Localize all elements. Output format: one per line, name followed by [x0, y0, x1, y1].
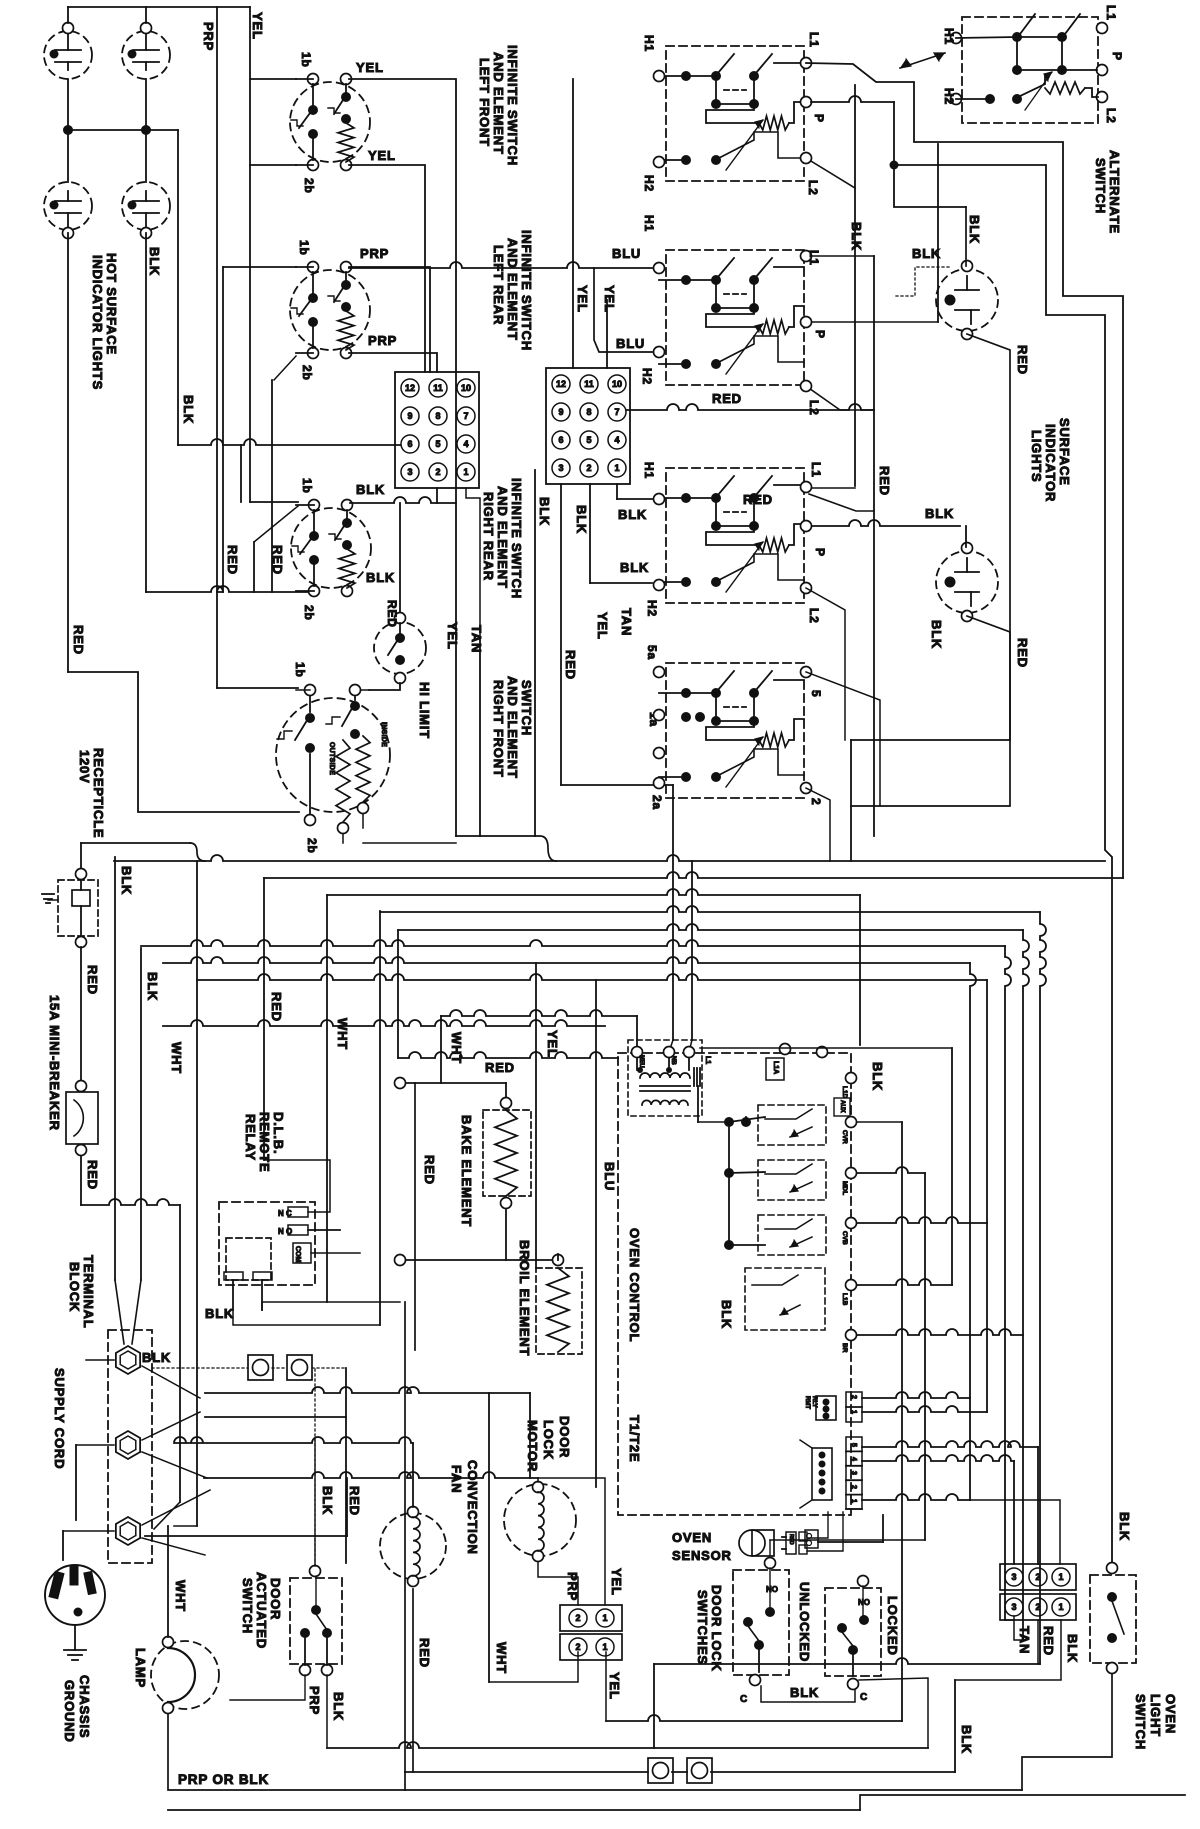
svg-text:RED: RED [85, 965, 100, 995]
svg-text:2: 2 [809, 798, 823, 805]
svg-text:2b: 2b [300, 365, 314, 381]
svg-text:SWITCHES: SWITCHES [695, 1590, 710, 1665]
svg-text:YEL: YEL [602, 285, 617, 313]
svg-text:PRP OR BLK: PRP OR BLK [178, 1772, 269, 1787]
svg-text:1: 1 [850, 1499, 857, 1503]
svg-text:D.L.B.: D.L.B. [271, 1112, 286, 1154]
svg-text:WHT: WHT [335, 1018, 350, 1050]
svg-text:L1B: L1B [841, 1293, 848, 1306]
svg-text:T1/T2E: T1/T2E [627, 1415, 642, 1462]
svg-text:1: 1 [614, 463, 619, 473]
svg-text:8: 8 [586, 407, 591, 417]
svg-text:L1D: L1D [841, 1086, 848, 1099]
svg-text:SUPPLY CORD: SUPPLY CORD [52, 1368, 67, 1469]
svg-text:MDL: MDL [841, 1181, 848, 1195]
svg-text:RED: RED [877, 466, 892, 496]
svg-text:DOOR: DOOR [268, 1578, 283, 1620]
svg-text:1: 1 [1058, 1602, 1063, 1612]
svg-text:5: 5 [586, 435, 591, 445]
svg-text:2a: 2a [650, 795, 664, 810]
svg-text:WHT: WHT [173, 1580, 188, 1612]
svg-text:BLK: BLK [870, 1062, 885, 1091]
svg-text:10: 10 [461, 383, 471, 393]
svg-text:INFINITE SWITCH: INFINITE SWITCH [505, 45, 520, 166]
svg-text:YEL: YEL [250, 12, 265, 40]
svg-text:OVEN CONTROL: OVEN CONTROL [627, 1228, 642, 1342]
svg-text:2: 2 [435, 467, 440, 477]
svg-text:4: 4 [614, 435, 619, 445]
svg-text:9: 9 [407, 411, 412, 421]
svg-text:DOOR: DOOR [557, 1416, 572, 1458]
svg-text:OUTSIDE: OUTSIDE [328, 742, 335, 775]
svg-text:1: 1 [602, 1613, 607, 1623]
svg-text:YEL: YEL [595, 612, 610, 640]
svg-text:N C: N C [278, 1209, 292, 1218]
svg-text:BLU: BLU [616, 336, 645, 351]
svg-text:AND ELEMENT: AND ELEMENT [505, 238, 520, 341]
svg-text:3: 3 [850, 1471, 857, 1475]
svg-text:5: 5 [435, 439, 440, 449]
svg-text:H2: H2 [640, 368, 654, 385]
svg-text:BLK: BLK [719, 1300, 734, 1329]
svg-text:YEL: YEL [609, 1568, 624, 1596]
svg-text:CVB: CVB [841, 1231, 848, 1245]
svg-text:2b: 2b [302, 178, 316, 194]
svg-text:CHASSIS: CHASSIS [77, 1675, 92, 1738]
svg-text:1: 1 [850, 1410, 857, 1414]
svg-text:GROUND: GROUND [62, 1680, 77, 1743]
svg-text:P: P [813, 548, 827, 557]
svg-text:TAN: TAN [619, 608, 634, 636]
svg-text:N O: N O [278, 1227, 292, 1236]
svg-text:AND ELEMENT: AND ELEMENT [505, 676, 520, 779]
svg-text:INFINITE SWITCH: INFINITE SWITCH [509, 478, 524, 599]
svg-text:LIGHTS: LIGHTS [1029, 430, 1044, 482]
svg-text:BAKE ELEMENT: BAKE ELEMENT [459, 1115, 474, 1227]
svg-text:12: 12 [556, 379, 566, 389]
svg-text:WHT: WHT [494, 1642, 509, 1674]
svg-text:BLU: BLU [612, 246, 641, 261]
svg-text:BLK: BLK [959, 1725, 974, 1754]
svg-text:2b: 2b [305, 838, 319, 854]
svg-text:L1: L1 [1104, 5, 1118, 21]
svg-text:OVEN: OVEN [1163, 1694, 1178, 1734]
svg-text:2: 2 [575, 1613, 580, 1623]
svg-text:L2: L2 [807, 400, 821, 416]
svg-text:BLK: BLK [356, 482, 385, 497]
svg-text:H1: H1 [642, 462, 656, 479]
svg-text:BLK: BLK [331, 1692, 346, 1721]
svg-text:120V: 120V [77, 750, 92, 784]
svg-text:5: 5 [809, 690, 823, 697]
svg-text:NO: NO [858, 1598, 870, 1607]
svg-text:INFINITE SWITCH: INFINITE SWITCH [519, 230, 534, 351]
svg-text:2: 2 [586, 463, 591, 473]
svg-text:RLY: RLY [811, 1396, 817, 1407]
svg-text:AUX: AUX [839, 1100, 845, 1113]
svg-text:BLK: BLK [929, 620, 944, 649]
svg-text:2: 2 [850, 1395, 857, 1399]
svg-text:FAN: FAN [449, 1465, 464, 1493]
svg-text:RIGHT FRONT: RIGHT FRONT [491, 680, 506, 778]
svg-text:RED: RED [347, 1486, 362, 1516]
svg-text:BLK: BLK [320, 1486, 335, 1515]
svg-text:LIGHT: LIGHT [1148, 1694, 1163, 1737]
svg-text:PRP: PRP [307, 1686, 322, 1715]
svg-text:5a: 5a [645, 645, 659, 660]
svg-text:MOTOR: MOTOR [525, 1420, 540, 1472]
svg-text:2b: 2b [302, 605, 316, 621]
svg-text:YEL: YEL [356, 60, 384, 75]
svg-text:SURFACE: SURFACE [1057, 418, 1072, 486]
svg-text:L2: L2 [806, 180, 820, 196]
svg-text:RED: RED [485, 1060, 515, 1075]
svg-text:H2: H2 [645, 600, 659, 617]
svg-text:BLK: BLK [537, 497, 552, 526]
svg-text:C: C [740, 1694, 747, 1705]
svg-text:BLK: BLK [620, 560, 649, 575]
svg-text:5: 5 [850, 1443, 857, 1447]
svg-text:RED: RED [1015, 638, 1030, 668]
svg-text:BLOCK: BLOCK [67, 1262, 82, 1312]
svg-text:RED: RED [269, 992, 284, 1022]
svg-text:ACTUATED: ACTUATED [254, 1572, 269, 1649]
svg-text:BLK: BLK [790, 1685, 819, 1700]
svg-text:RELAY: RELAY [243, 1114, 258, 1161]
svg-text:NO: NO [766, 1585, 778, 1594]
svg-text:RED: RED [385, 600, 399, 628]
svg-text:AND ELEMENT: AND ELEMENT [495, 486, 510, 589]
svg-text:L1: L1 [807, 250, 821, 266]
svg-text:INDICATOR LIGHTS: INDICATOR LIGHTS [90, 255, 105, 390]
svg-text:1b: 1b [293, 662, 307, 678]
svg-text:SENSOR: SENSOR [672, 1548, 732, 1563]
svg-text:15A MINI-BREAKER: 15A MINI-BREAKER [47, 995, 62, 1131]
svg-text:10: 10 [612, 379, 622, 389]
svg-text:1: 1 [1058, 1572, 1063, 1582]
svg-text:BLK: BLK [1065, 1634, 1080, 1663]
svg-text:LOCK: LOCK [541, 1420, 556, 1460]
svg-text:8: 8 [435, 411, 440, 421]
svg-text:RED: RED [1041, 1626, 1056, 1656]
svg-text:BLK: BLK [849, 222, 864, 251]
svg-text:SWITCH: SWITCH [1093, 158, 1108, 214]
svg-text:INDICATOR: INDICATOR [1043, 424, 1058, 502]
svg-text:4: 4 [463, 439, 468, 449]
svg-text:BLU: BLU [602, 1162, 617, 1191]
svg-text:RIGHT REAR: RIGHT REAR [481, 492, 496, 581]
svg-text:PRP: PRP [201, 22, 216, 51]
svg-text:BLK: BLK [925, 506, 954, 521]
svg-text:SWITCH: SWITCH [519, 680, 534, 736]
svg-text:HI LIMIT: HI LIMIT [417, 682, 432, 739]
svg-text:LOCKED: LOCKED [885, 1596, 900, 1656]
svg-text:YEL: YEL [607, 1672, 622, 1700]
svg-text:L1: L1 [807, 32, 821, 48]
svg-text:HOT SURFACE: HOT SURFACE [104, 253, 119, 355]
svg-text:WHT: WHT [169, 1042, 184, 1074]
svg-text:RED: RED [417, 1638, 432, 1668]
svg-text:BLK: BLK [1117, 1512, 1132, 1541]
svg-text:1b: 1b [300, 478, 314, 494]
svg-text:4: 4 [850, 1457, 857, 1461]
svg-text:SWITCH: SWITCH [1133, 1694, 1148, 1750]
svg-text:RED: RED [270, 545, 285, 575]
svg-text:BLK: BLK [145, 972, 160, 1001]
svg-text:BLK: BLK [205, 1306, 234, 1321]
svg-text:DOOR LOCK: DOOR LOCK [709, 1585, 724, 1672]
svg-text:RED: RED [563, 650, 578, 680]
svg-text:TAN: TAN [469, 625, 484, 653]
svg-text:H2: H2 [642, 175, 656, 192]
svg-text:ALTERNATE: ALTERNATE [1107, 150, 1122, 234]
svg-text:7: 7 [614, 407, 619, 417]
svg-text:BROIL ELEMENT: BROIL ELEMENT [517, 1240, 532, 1356]
svg-text:OVEN: OVEN [672, 1530, 712, 1545]
svg-text:BLK: BLK [574, 505, 589, 534]
svg-text:TERMINAL: TERMINAL [81, 1255, 96, 1329]
svg-text:YEL: YEL [368, 148, 396, 163]
svg-text:PRP: PRP [368, 333, 397, 348]
svg-text:RED: RED [85, 1160, 100, 1190]
svg-text:11: 11 [433, 383, 443, 393]
svg-text:L1: L1 [704, 1056, 711, 1064]
svg-text:YEL: YEL [575, 285, 590, 313]
svg-text:BLK: BLK [119, 866, 134, 895]
svg-text:BLK: BLK [967, 215, 982, 244]
svg-text:BLK: BLK [618, 507, 647, 522]
svg-text:1b: 1b [299, 52, 313, 68]
svg-text:RECEPTICLE: RECEPTICLE [91, 748, 106, 838]
svg-text:COM: COM [294, 1246, 301, 1263]
svg-text:RED: RED [712, 391, 742, 406]
svg-text:CVR: CVR [841, 1130, 848, 1144]
svg-text:H1: H1 [642, 215, 656, 232]
svg-text:7: 7 [463, 411, 468, 421]
svg-text:3: 3 [558, 463, 563, 473]
svg-text:L2: L2 [1104, 108, 1118, 124]
svg-text:3: 3 [1011, 1602, 1016, 1612]
svg-text:RED: RED [225, 545, 240, 575]
svg-text:PRP: PRP [360, 246, 389, 261]
svg-text:H2: H2 [942, 88, 956, 105]
svg-text:3: 3 [407, 467, 412, 477]
svg-text:RED: RED [1015, 345, 1030, 375]
svg-text:RED: RED [743, 492, 773, 507]
svg-text:BLK: BLK [142, 1350, 171, 1365]
svg-text:RED: RED [422, 1155, 437, 1185]
svg-text:AND ELEMENT: AND ELEMENT [491, 52, 506, 155]
svg-text:BLK: BLK [181, 395, 196, 424]
svg-text:1: 1 [463, 467, 468, 477]
svg-text:BR: BR [841, 1343, 848, 1353]
svg-text:LEFT REAR: LEFT REAR [491, 245, 506, 325]
svg-text:RMT: RMT [804, 1396, 810, 1409]
svg-text:LAMP: LAMP [133, 1648, 148, 1688]
svg-text:LEFT FRONT: LEFT FRONT [477, 58, 492, 147]
svg-text:P: P [812, 114, 826, 123]
svg-text:H1: H1 [942, 28, 956, 45]
svg-text:11: 11 [584, 379, 594, 389]
svg-text:2: 2 [575, 1642, 580, 1652]
svg-text:INSIDE: INSIDE [380, 722, 387, 747]
svg-text:P: P [813, 330, 827, 339]
svg-text:1b: 1b [297, 240, 311, 256]
svg-text:RED: RED [71, 625, 86, 655]
svg-text:YEL: YEL [445, 622, 460, 650]
svg-text:6: 6 [558, 435, 563, 445]
svg-text:P: P [1110, 52, 1124, 61]
svg-text:WHT: WHT [449, 1032, 464, 1064]
svg-text:NEU: NEU [638, 1055, 644, 1068]
svg-text:CONVECTION: CONVECTION [465, 1460, 480, 1555]
svg-text:L1A: L1A [772, 1061, 779, 1074]
svg-text:6: 6 [407, 439, 412, 449]
svg-text:12: 12 [405, 383, 415, 393]
svg-text:BLK: BLK [912, 246, 941, 261]
svg-text:1: 1 [602, 1642, 607, 1652]
svg-text:C: C [860, 1692, 867, 1703]
svg-text:L1: L1 [809, 462, 823, 478]
svg-text:2: 2 [850, 1485, 857, 1489]
svg-text:NB: NB [670, 1056, 676, 1065]
svg-text:3: 3 [1011, 1572, 1016, 1582]
svg-text:YEL: YEL [545, 1030, 560, 1058]
svg-text:UNLOCKED: UNLOCKED [797, 1582, 812, 1662]
svg-text:L2: L2 [807, 608, 821, 624]
svg-text:9: 9 [558, 407, 563, 417]
svg-text:BLK: BLK [147, 247, 162, 276]
svg-text:H1: H1 [642, 35, 656, 52]
svg-text:BLK: BLK [366, 570, 395, 585]
svg-text:PRP: PRP [565, 1572, 580, 1601]
svg-text:SWITCH: SWITCH [240, 1578, 255, 1634]
